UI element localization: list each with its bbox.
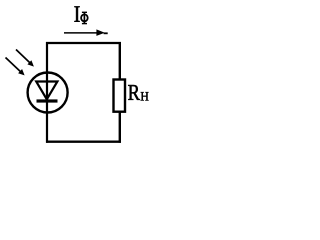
photodiode circle <box>28 73 68 113</box>
wire left (through photodiode VD) <box>46 42 48 143</box>
wire right (through resistor) <box>119 42 121 143</box>
wire bottom <box>46 140 121 142</box>
current arrow <box>64 29 108 36</box>
resistor RH body <box>114 80 126 112</box>
light arrow lower <box>6 58 25 76</box>
label I-phi : subscript phi (drawn) <box>81 12 88 24</box>
photodiode cathode bar <box>37 99 58 102</box>
wire top (left node to right node) <box>46 42 121 44</box>
label RH : R <box>128 85 140 100</box>
light arrow upper <box>16 50 34 67</box>
photodiode triangle (anode) <box>36 82 57 100</box>
label I-phi : I (photocurrent) <box>74 6 79 21</box>
label RH : subscript H <box>141 92 149 100</box>
